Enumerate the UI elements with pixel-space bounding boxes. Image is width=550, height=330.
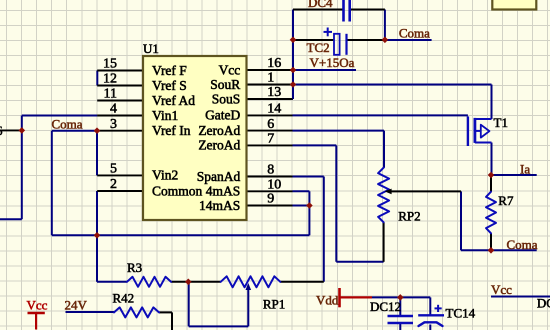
svg-text:GateD: GateD xyxy=(205,108,240,123)
svg-text:16: 16 xyxy=(267,56,281,71)
svg-text:R7: R7 xyxy=(498,193,514,208)
svg-text:DC12: DC12 xyxy=(370,299,401,314)
svg-text:Vin2: Vin2 xyxy=(152,168,178,183)
svg-text:Vref S: Vref S xyxy=(152,78,187,93)
svg-text:10: 10 xyxy=(267,178,281,193)
svg-text:Ia: Ia xyxy=(520,161,530,176)
svg-text:7: 7 xyxy=(267,132,274,147)
svg-text:Vcc: Vcc xyxy=(27,297,48,312)
svg-text:14: 14 xyxy=(267,102,281,117)
svg-text:ZeroAd: ZeroAd xyxy=(198,138,240,153)
svg-text:Vref In: Vref In xyxy=(152,123,191,138)
svg-text:TC14: TC14 xyxy=(446,305,476,320)
svg-text:2: 2 xyxy=(110,177,117,192)
svg-text:5: 5 xyxy=(110,162,117,177)
svg-text:SouS: SouS xyxy=(212,91,241,106)
svg-text:SpanAd: SpanAd xyxy=(197,169,241,184)
svg-text:SouR: SouR xyxy=(210,77,240,92)
svg-text:1: 1 xyxy=(267,71,274,86)
svg-text:11: 11 xyxy=(104,87,117,102)
svg-text:DC4: DC4 xyxy=(308,0,333,10)
svg-text:12: 12 xyxy=(103,72,117,87)
svg-text:Coma: Coma xyxy=(507,237,538,252)
svg-text:V+15Oa: V+15Oa xyxy=(310,55,355,70)
svg-text:DC: DC xyxy=(537,296,550,311)
svg-text:Vcc: Vcc xyxy=(219,62,241,77)
svg-text:24V: 24V xyxy=(65,298,88,313)
svg-text:U1: U1 xyxy=(143,41,159,56)
svg-text:4mAS: 4mAS xyxy=(206,184,241,199)
svg-text:Vin1: Vin1 xyxy=(152,108,178,123)
svg-text:3: 3 xyxy=(110,117,117,132)
svg-text:14mAS: 14mAS xyxy=(199,198,240,213)
svg-text:6: 6 xyxy=(267,117,274,132)
svg-text:T1: T1 xyxy=(494,115,508,130)
svg-text:Vcc: Vcc xyxy=(491,282,512,297)
svg-text:9: 9 xyxy=(267,192,274,207)
svg-text:4: 4 xyxy=(110,102,117,117)
svg-text:8: 8 xyxy=(267,163,274,178)
svg-text:Coma: Coma xyxy=(52,117,83,132)
svg-text:TC2: TC2 xyxy=(307,40,330,55)
svg-text:Common: Common xyxy=(152,183,203,198)
svg-text:15: 15 xyxy=(103,57,117,72)
svg-text:13: 13 xyxy=(267,85,281,100)
svg-text:Vdd: Vdd xyxy=(316,292,339,307)
svg-text:R42: R42 xyxy=(113,291,135,306)
svg-text:ZeroAd: ZeroAd xyxy=(198,123,240,138)
svg-text:Vref Ad: Vref Ad xyxy=(152,93,195,108)
svg-text:Vref F: Vref F xyxy=(152,63,187,78)
svg-text:RP1: RP1 xyxy=(263,296,285,311)
svg-text:Coma: Coma xyxy=(399,26,430,41)
svg-text:RP2: RP2 xyxy=(398,209,420,224)
svg-text:R3: R3 xyxy=(127,260,142,275)
